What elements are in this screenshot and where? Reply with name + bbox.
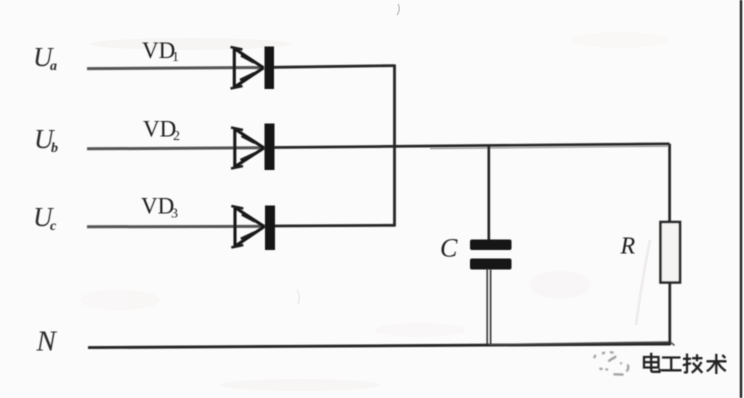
wire resistor branch upper [668,144,671,223]
diode VD2 value label [143,117,180,145]
wire VD1 cathode to bus [274,66,395,68]
glyph dian [644,353,660,372]
diode VD3 [231,206,275,251]
node Uc label [33,202,57,234]
diode VD1 value label [142,38,179,65]
node Ub label [34,124,58,156]
glyph ji [683,354,703,373]
svg-text:3: 3 [171,207,178,222]
svg-text:VD: VD [141,194,174,219]
wire cathode bus vertical [393,65,396,227]
diode VD1 [231,47,275,90]
wire capacitor branch lower [486,269,488,346]
watermark text [644,353,727,374]
svg-text:2: 2 [173,129,180,144]
wire resistor branch lower [668,283,671,346]
wire phase C input [87,225,265,229]
glyph shu [707,354,727,374]
wire neutral N line [88,344,671,348]
resistor R body [661,222,681,283]
glyph gong [661,358,682,371]
svg-text:N: N [36,326,58,358]
watermark logo circle [594,352,628,375]
svg-text:c: c [50,219,57,234]
node Ua label [33,42,57,74]
wire VD3 cathode to bus [275,224,395,227]
svg-text:1: 1 [172,50,179,65]
svg-text:C: C [440,234,458,263]
wire phase A input [87,68,264,69]
wire phase B input [87,148,264,149]
wire VD2 cathode to right branch [274,144,670,148]
capacitor C top plate [470,240,512,251]
svg-text:b: b [51,141,58,156]
svg-text:R: R [620,234,636,260]
right border line [740,0,742,398]
svg-text:a: a [50,59,57,74]
capacitor C bottom plate [470,259,512,270]
svg-text:VD: VD [142,38,175,63]
diode VD3 value label [141,194,178,222]
diode VD2 [231,124,275,171]
svg-text:VD: VD [143,117,176,142]
wire capacitor branch upper [487,145,490,240]
